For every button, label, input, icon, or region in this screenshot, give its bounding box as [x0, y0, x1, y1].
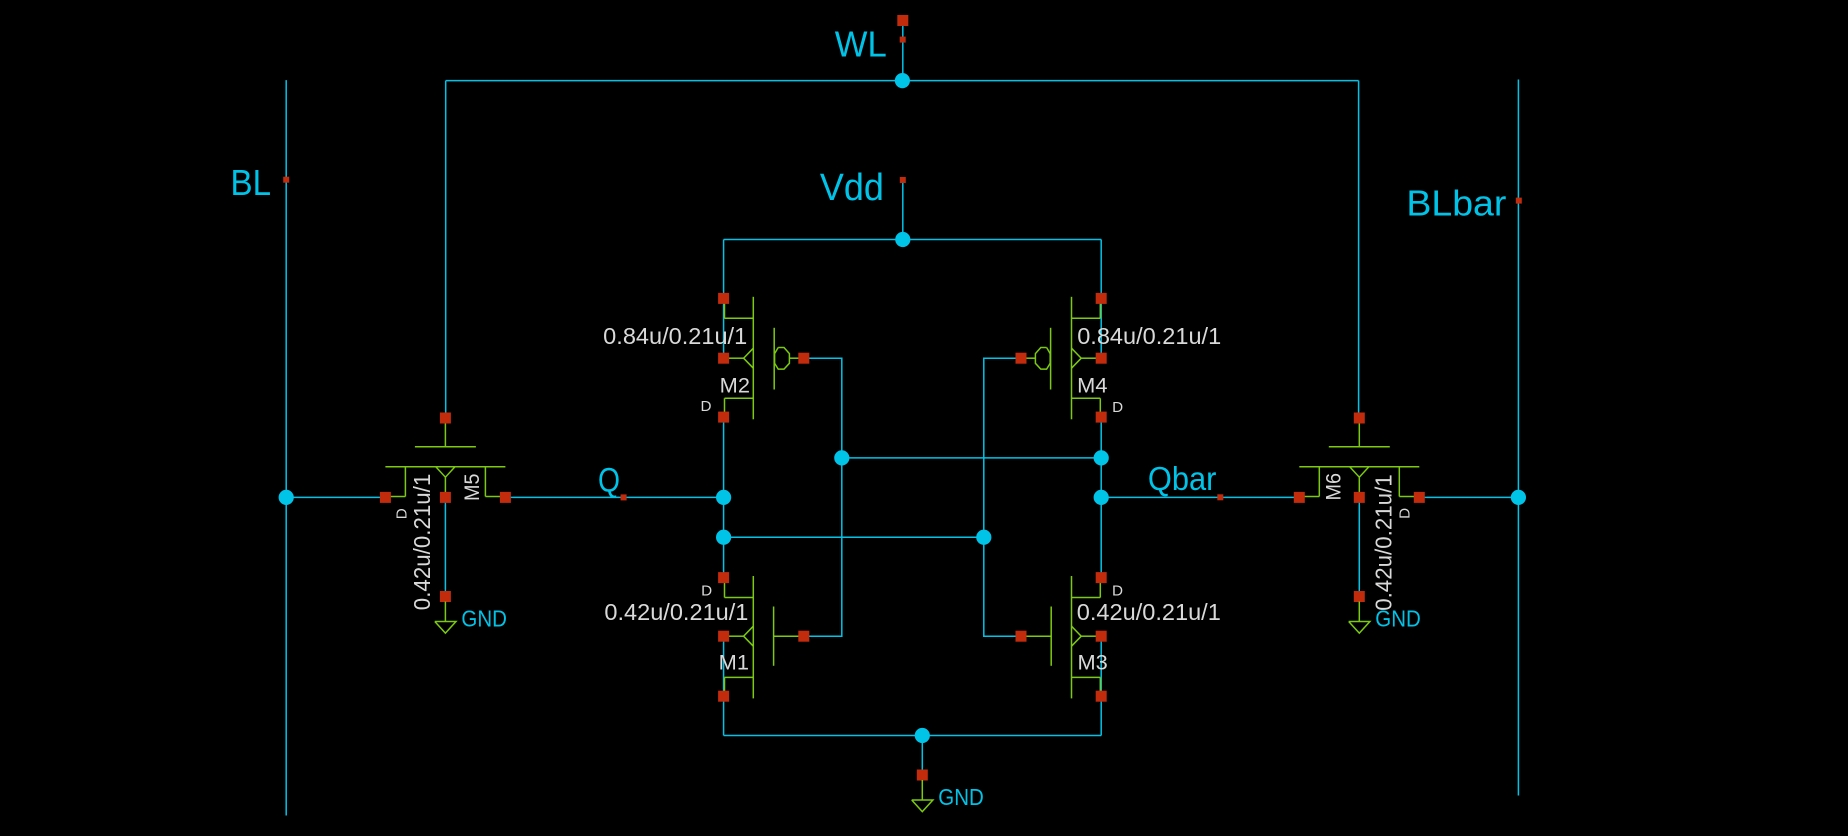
wire GND rail (sources of M1 and M3)	[724, 735, 1102, 737]
pin BLbar label attach	[1516, 198, 1522, 204]
svg-text:GND: GND	[461, 606, 507, 632]
wire Vdd drop left to M2 source	[723, 240, 725, 299]
svg-text:WL: WL	[835, 23, 887, 64]
svg-text:D: D	[701, 398, 712, 415]
wire WL rail	[446, 80, 1359, 82]
node BL-Q junction	[279, 490, 294, 505]
svg-text:Q: Q	[598, 462, 620, 500]
transistor M5 (NMOS left access)	[380, 413, 511, 503]
transistor M3 (NMOS right pull-down)	[1016, 572, 1107, 702]
wire M2 source-bulk tie	[723, 298, 725, 358]
svg-text:M5: M5	[460, 473, 484, 501]
wire M5 bulk to GND	[444, 497, 446, 596]
wire BLbar bitline	[1517, 80, 1519, 796]
node Qbar junction at latch	[1094, 490, 1109, 505]
wire M6 to BLbar	[1419, 496, 1518, 498]
wire node Q vertical (M2 drain to M1 drain)	[723, 417, 725, 577]
wire BL bitline	[285, 80, 287, 815]
wire M4 gate to M3 gate	[984, 358, 1021, 636]
node Vdd junction	[895, 232, 910, 247]
svg-text:D: D	[1397, 508, 1414, 519]
wire Vdd rail	[724, 239, 1102, 241]
svg-text:M3: M3	[1078, 651, 1108, 675]
node WL junction	[895, 73, 910, 88]
wire WL right drop to M6 gate	[1358, 81, 1360, 418]
node Qbar branch junction left	[834, 450, 849, 465]
svg-text:BL: BL	[231, 162, 272, 203]
transistor M4 (PMOS right pull-up)	[1016, 293, 1107, 423]
pin WL port terminal	[897, 15, 908, 26]
wire WL pin stub	[902, 21, 904, 81]
svg-text:0.84u/0.21u/1: 0.84u/0.21u/1	[1077, 323, 1221, 349]
svg-text:0.42u/0.21u/1: 0.42u/0.21u/1	[1077, 599, 1221, 625]
wire M3 bulk-source tie to GND rail	[1100, 636, 1102, 735]
svg-text:GND: GND	[938, 784, 984, 810]
wire node Qbar vertical (M4 drain to M3 drain)	[1100, 417, 1102, 577]
wire Vdd pin stub	[902, 180, 904, 240]
node Q branch junction right	[976, 530, 991, 545]
node Qbar cross-couple junction	[1094, 450, 1109, 465]
svg-text:0.42u/0.21u/1: 0.42u/0.21u/1	[409, 474, 435, 611]
ground symbol left (M5 bulk)	[435, 591, 507, 633]
svg-text:D: D	[701, 582, 712, 599]
wire node Q (M5 to latch)	[505, 496, 723, 498]
svg-text:M4: M4	[1077, 373, 1107, 397]
svg-text:0.84u/0.21u/1: 0.84u/0.21u/1	[603, 323, 747, 349]
pin Qbar label attach	[1217, 494, 1223, 500]
wire M2 gate to M1 gate	[804, 358, 842, 636]
svg-text:Vdd: Vdd	[820, 167, 884, 209]
svg-text:D: D	[394, 508, 411, 519]
wire Vdd drop right to M4 source	[1100, 240, 1102, 299]
transistor M6 (NMOS right access)	[1294, 413, 1425, 503]
wire BL to M5 left terminal	[286, 496, 385, 498]
wire M6 bulk to GND	[1358, 497, 1360, 596]
svg-text:Qbar: Qbar	[1148, 460, 1217, 497]
transistor M2 (PMOS left pull-up)	[718, 293, 809, 423]
svg-text:0.42u/0.21u/1: 0.42u/0.21u/1	[604, 599, 748, 625]
wire Qbar to M1/M2 gates	[842, 457, 1101, 459]
wire GND rail stub down	[921, 736, 923, 776]
svg-text:0.42u/0.21u/1: 0.42u/0.21u/1	[1371, 474, 1397, 611]
pin BL label attach	[283, 177, 289, 183]
ground symbol bottom (latch sources)	[912, 770, 984, 812]
node Q junction at latch	[716, 490, 731, 505]
svg-text:D: D	[1112, 582, 1123, 599]
svg-text:M1: M1	[719, 651, 749, 675]
wire Q to M3/M4 gates	[724, 536, 984, 538]
ground symbol right (M6 bulk)	[1349, 591, 1421, 633]
wire M1 bulk-source tie to GND rail	[723, 636, 725, 735]
wire node Qbar (latch to M6)	[1101, 496, 1299, 498]
pin WL label attach	[900, 37, 906, 43]
transistor M1 (NMOS left pull-down)	[718, 572, 809, 702]
wire M4 source-bulk tie	[1100, 298, 1102, 358]
svg-text:BLbar: BLbar	[1406, 183, 1506, 224]
node GND rail junction	[915, 728, 930, 743]
wire WL left drop to M5 gate	[445, 81, 447, 418]
svg-text:D: D	[1112, 399, 1123, 416]
svg-text:M6: M6	[1321, 473, 1345, 501]
svg-text:M2: M2	[720, 373, 750, 397]
pin Vdd label attach	[900, 177, 906, 183]
pin Q label attach	[621, 494, 627, 500]
node Q cross-couple junction	[716, 530, 731, 545]
node Qbar-BLbar junction	[1511, 490, 1526, 505]
